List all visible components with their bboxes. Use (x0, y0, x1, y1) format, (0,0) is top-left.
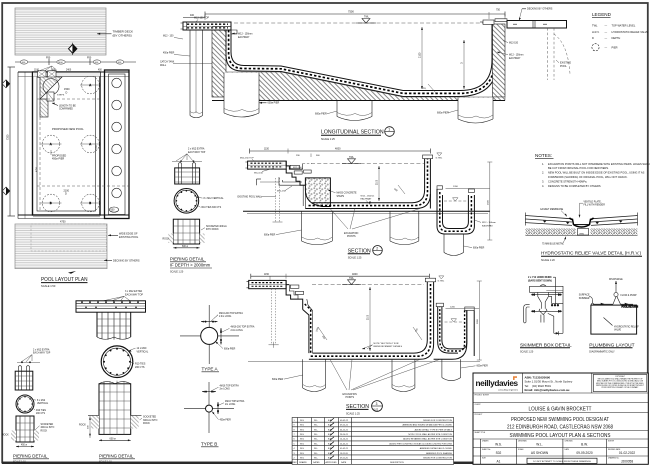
legend (592, 12, 649, 51)
title block copyright cell (593, 375, 647, 392)
plan left margin dimension line (7, 67, 15, 216)
svg-text:W.S.: W.S. (300, 439, 305, 441)
svg-text:3.: 3. (542, 179, 544, 183)
svg-text:B.W.: B.W. (328, 429, 333, 431)
svg-text:W.S.: W.S. (300, 425, 305, 427)
svg-text:4750: 4750 (36, 166, 38, 172)
section 3 ground line (248, 361, 480, 363)
svg-text:B.W.: B.W. (328, 434, 333, 436)
section 2 catch tank dims (446, 162, 496, 240)
svg-text:REINFORCEMENT DETAILS: REINFORCEMENT DETAILS (374, 345, 403, 348)
600 pier label (pier 3) (315, 111, 337, 116)
plan dashed setout lines (37, 77, 129, 211)
section 2 pier 1 (302, 211, 333, 245)
svg-text:8 x M12 VERTICAL: 8 x M12 VERTICAL (204, 197, 225, 200)
section 2 600 pier label (264, 230, 302, 236)
svg-text:TWL: TWL (349, 157, 355, 159)
svg-text:01-02-2022: 01-02-2022 (619, 451, 636, 455)
svg-text:NORTH: NORTH (608, 440, 615, 442)
svg-text:SCALE 1:20: SCALE 1:20 (541, 259, 555, 262)
svg-text:POINTS: POINTS (347, 236, 356, 238)
section 3 pier 1 (303, 359, 326, 391)
svg-text:SCALE 1:25: SCALE 1:25 (321, 138, 335, 141)
svg-text:1.: 1. (542, 162, 544, 166)
notes heading (535, 153, 554, 159)
svg-text:DISCHARGE: DISCHARGE (609, 278, 623, 281)
hrv slab left (525, 213, 572, 226)
svg-text:W12 - 150mm: W12 - 150mm (361, 195, 375, 197)
svg-text:7500: 7500 (348, 10, 354, 14)
section 3 pier labels (272, 366, 488, 381)
piering detail (depth>2000) cage elevation (175, 163, 200, 184)
bottom-left piering section circle (16, 395, 49, 415)
section 3 steps (286, 280, 320, 353)
blue metal label (542, 237, 566, 246)
svg-text:4750: 4750 (60, 221, 66, 224)
pier 4 (longitudinal) (458, 98, 493, 124)
svg-text:COPYRIGHT: COPYRIGHT (615, 376, 625, 378)
svg-text:SCALE: SCALE (518, 448, 524, 451)
svg-text:(BARS BENT DOWN): (BARS BENT DOWN) (528, 279, 552, 282)
section 3 TWL (312, 278, 424, 285)
svg-text:AMENDED AND ISSUED DETAILS AS: AMENDED AND ISSUED DETAILS AS PER CLOUDE… (402, 424, 452, 427)
falls arrow label on slope (287, 78, 436, 93)
svg-text:2m LONG: 2m LONG (225, 404, 236, 406)
svg-text:2m LONG: 2m LONG (220, 389, 231, 391)
title block frame (473, 373, 648, 464)
svg-text:W12 - 150mm: W12 - 150mm (482, 222, 496, 224)
svg-text:AS SHOWN: AS SHOWN (531, 451, 549, 455)
svg-text:SCALE 1:20: SCALE 1:20 (520, 350, 534, 353)
section 2 top dimension line (250, 148, 431, 158)
svg-text:DESIGNS TO BE COMPLETED BY OTH: DESIGNS TO BE COMPLETED BY OTHERS (548, 184, 601, 188)
svg-text:600: 600 (393, 189, 398, 193)
svg-text:POOL: POOL (560, 65, 567, 68)
600 pier label (pier 4) (437, 110, 458, 115)
do not scale box (527, 458, 597, 463)
svg-text:INTO ROCK: INTO ROCK (206, 229, 219, 231)
bottom-mid piering section circle (101, 346, 149, 378)
svg-text:FLOW & PUMP: FLOW & PUMP (621, 295, 638, 297)
piering detail (depth>2000) socket elevation (163, 219, 228, 244)
bottom-left piering socket elevation (2, 416, 54, 442)
plumbing layout skimmer (579, 294, 594, 306)
svg-text:600 ø: 600 ø (182, 246, 188, 248)
bottom-left piering detail label (17, 348, 51, 363)
plan steps hatched triangle (40, 77, 62, 117)
svg-text:SURFACE: SURFACE (579, 294, 590, 297)
bottom-left piering title (13, 453, 49, 463)
svg-text:TYPE B: TYPE B (201, 441, 217, 446)
section 3 note section4 label (362, 343, 403, 349)
bottom-mid piering neck elevation (97, 312, 131, 339)
svg-text:EACHWAY: EACHWAY (509, 57, 521, 60)
svg-text:EACHWAY: EACHWAY (238, 36, 250, 39)
existing pool label (556, 60, 571, 68)
svg-text:M12-150: M12-150 (293, 167, 302, 169)
svg-text:NOTE 2 POOL WALL AS PER SITE C: NOTE 2 POOL WALL AS PER SITE CONDITION (408, 433, 452, 436)
svg-text:AMENDED DETAILS AS CLOUDED: AMENDED DETAILS AS CLOUDED (420, 447, 453, 450)
svg-text:consulting engineers: consulting engineers (498, 389, 519, 392)
svg-text:W.L.: W.L. (314, 425, 318, 427)
title block sheet title row (510, 433, 611, 439)
hrv slab right (591, 213, 638, 226)
svg-text:TOP WATER LEVEL: TOP WATER LEVEL (612, 24, 636, 28)
svg-text:NEW POOL WILL BE BUILT ON INSI: NEW POOL WILL BE BUILT ON INSIDE EDGE OF… (548, 171, 645, 175)
svg-text:W.L.: W.L. (536, 442, 542, 446)
svg-text:750: 750 (496, 8, 501, 11)
svg-text:B: B (50, 202, 52, 205)
svg-text:M12-150: M12-150 (509, 43, 519, 45)
svg-text:7200: 7200 (7, 134, 10, 140)
svg-text:4000: 4000 (352, 273, 358, 276)
svg-text:R10 TIES: R10 TIES (36, 410, 46, 412)
piering detail (depth>2000) section circle (174, 189, 224, 214)
datum diamond left margin upper (2, 80, 10, 88)
title block project rows (507, 417, 613, 431)
svg-text:4000: 4000 (335, 148, 341, 151)
svg-text:2100: 2100 (368, 314, 370, 320)
small north arrow under band (68, 271, 76, 274)
svg-text:2400: 2400 (58, 62, 64, 64)
svg-text:W.L.: W.L. (314, 429, 318, 431)
svg-text:WALL: WALL (160, 64, 167, 67)
svg-text:ADDED PIER CONSTRUCTION AS CLO: ADDED PIER CONSTRUCTION AS CLOUDED & NOT… (389, 442, 452, 445)
svg-text:B.W.: B.W. (328, 458, 333, 460)
svg-text:PIERING DETAIL: PIERING DETAIL (170, 256, 205, 261)
svg-text:600: 600 (415, 328, 419, 333)
svg-text:PROJECT: PROJECT (475, 414, 483, 416)
svg-text:4M16-200 TOP EXTRA: 4M16-200 TOP EXTRA (219, 312, 243, 315)
pool shell (longitudinal) (212, 24, 497, 97)
svg-text:DRAWN: DRAWN (482, 439, 489, 442)
svg-text:D: D (66, 91, 68, 94)
svg-text:H.R.V.: H.R.V. (592, 30, 600, 34)
svg-text:2100: 2100 (377, 179, 379, 185)
600 pier label (pier 2) (259, 102, 279, 105)
svg-text:A: A (50, 143, 52, 146)
floor bed hatch (longitudinal) (212, 72, 505, 101)
svg-text:VENTILE PLATE,: VENTILE PLATE, (584, 200, 602, 203)
svg-text:EACH WAY TOP: EACH WAY TOP (188, 151, 206, 154)
svg-text:W12 - 150mm: W12 - 150mm (238, 34, 253, 36)
svg-text:PROJECT NORTH: PROJECT NORTH (475, 395, 490, 397)
catch tank pier (longitudinal far-left) (190, 30, 203, 118)
svg-text:W.S.: W.S. (300, 448, 305, 450)
existing pool dashed outline (548, 28, 571, 80)
svg-text:P50: P50 (46, 56, 51, 59)
type B detail (184, 382, 245, 433)
svg-text:EXISTING POOL: EXISTING POOL (119, 236, 139, 239)
svg-text:PIERING DETAIL: PIERING DETAIL (99, 453, 134, 458)
svg-text:360: 360 (316, 155, 320, 157)
svg-text:PROPOSED NEW SWIMMING POOL DES: PROPOSED NEW SWIMMING POOL DESIGN AT (511, 417, 609, 423)
section 2 excavation points (330, 209, 420, 239)
svg-text:LENGTH TO BE: LENGTH TO BE (59, 105, 76, 107)
internal depth dimension 1 (419, 27, 423, 89)
svg-text:SCALE 1:25: SCALE 1:25 (346, 412, 360, 415)
datum diamond left margin lower (2, 187, 10, 195)
piering detail (depth>2000) label (172, 148, 206, 163)
svg-text:600 ø: 600 ø (110, 437, 117, 440)
section 2 ground line and bed (243, 211, 490, 213)
svg-text:290: 290 (296, 155, 300, 157)
skimmer box label (528, 276, 556, 304)
svg-text:18-11-20: 18-11-20 (340, 453, 349, 455)
svg-text:4.: 4. (542, 184, 544, 188)
section 3 existing wall dashed (269, 289, 279, 348)
svg-text:EACH WAY TOP: EACH WAY TOP (33, 352, 51, 355)
svg-text:DESIGNED: DESIGNED (518, 440, 528, 442)
svg-text:CLIENT: CLIENT (475, 404, 481, 406)
svg-text:SOCKETED: SOCKETED (41, 424, 54, 426)
piering detail (depth>2000) title (170, 256, 212, 273)
svg-text:600ø PIER: 600ø PIER (272, 379, 284, 381)
svg-text:W.S.: W.S. (495, 442, 502, 446)
svg-text:EXCAVATION POINTS WILL NOT INT: EXCAVATION POINTS WILL NOT INTERFERE WIT… (548, 162, 650, 166)
svg-text:HYDROSTATIC RELIEF VALVE: HYDROSTATIC RELIEF VALVE (612, 30, 649, 34)
svg-text:450ø PIER: 450ø PIER (52, 158, 64, 161)
svg-text:W.L.: W.L. (314, 453, 318, 455)
svg-text:TWL: TWL (364, 17, 370, 19)
svg-text:DO NOT ATTEMPT TO SCALE FROM T: DO NOT ATTEMPT TO SCALE FROM THESE DRAWI… (533, 460, 591, 463)
svg-text:B.W.: B.W. (328, 443, 333, 445)
svg-text:2600: 2600 (477, 318, 479, 324)
m12-150 top label (left ledge) (194, 17, 209, 22)
left pool wall hatched (longitudinal) (212, 30, 226, 97)
svg-text:ISSUED FOR CONSTRUCTION: ISSUED FOR CONSTRUCTION (423, 420, 452, 422)
svg-text:B.W.: B.W. (581, 442, 588, 446)
svg-text:200 CTS: 200 CTS (135, 366, 145, 369)
section 2 pool shell (303, 153, 443, 209)
section 3 spa pier (442, 359, 461, 380)
section 2 mass concrete steps blob (305, 178, 357, 207)
svg-text:4M16 TOP EXTRA: 4M16 TOP EXTRA (225, 400, 245, 403)
svg-text:B.W.: B.W. (328, 425, 333, 427)
bottom-mid piering socket elevation (79, 381, 157, 438)
section 2 catch tank pier (444, 234, 485, 256)
pool plan wall rectangle (33, 72, 101, 215)
hrv gravel band (525, 228, 637, 235)
svg-text:B.W.: B.W. (328, 439, 333, 441)
svg-text:STEPS: STEPS (337, 196, 345, 198)
svg-text:2.0m LONG: 2.0m LONG (231, 330, 243, 332)
right rim rebar labels (497, 40, 524, 60)
svg-text:1150: 1150 (264, 149, 270, 151)
plumbing layout title (589, 342, 634, 353)
svg-text:S02: S02 (496, 451, 502, 455)
section 3 spa (434, 281, 482, 360)
timber deck label (97, 30, 133, 38)
svg-text:GASKET MEMBRANE: GASKET MEMBRANE (540, 208, 564, 211)
svg-text:TYPE A: TYPE A (202, 366, 219, 371)
svg-text:R10 TIES 300 CTS: R10 TIES 300 CTS (202, 207, 222, 209)
svg-text:CATCH TANK: CATCH TANK (160, 61, 175, 64)
svg-text:CONCRETE STRENGTH 40MPa.: CONCRETE STRENGTH 40MPa. (548, 179, 587, 183)
svg-text:LEGEND: LEGEND (592, 12, 612, 17)
section 2 internal dimension (361, 166, 406, 205)
svg-text:450ø PIER: 450ø PIER (220, 419, 232, 421)
svg-text:EACH WAY TOP: EACH WAY TOP (125, 293, 143, 296)
svg-text:03-02-22: 03-02-22 (340, 420, 349, 422)
svg-text:DATED: DATED (313, 461, 320, 464)
svg-text:M12-150: M12-150 (277, 191, 286, 193)
svg-text:01-02-21: 01-02-21 (340, 448, 349, 450)
svg-text:Tel: (02) 9922 5501: Tel: (02) 9922 5501 (525, 384, 552, 388)
svg-text:600ø PIER: 600ø PIER (473, 247, 485, 249)
svg-text:CONFIRMED: CONFIRMED (59, 109, 73, 111)
piering detail (depth>2000) dia dimension (173, 246, 199, 249)
svg-text:PROPOSED NEW POOL: PROPOSED NEW POOL (52, 127, 84, 131)
svg-text:—: — (605, 37, 608, 40)
svg-text:200 CTS: 200 CTS (36, 413, 46, 415)
svg-text:CHECKED: CHECKED (565, 440, 574, 442)
svg-text:1: 1 (388, 128, 390, 132)
svg-text:P50: P50 (87, 56, 92, 59)
svg-text:W.L.: W.L. (314, 443, 318, 445)
svg-text:SCALE 1:25: SCALE 1:25 (348, 257, 362, 260)
longitudinal section title (321, 127, 394, 141)
timber deck plank (right of longitudinal) (507, 21, 567, 29)
svg-text:EXISTING POOL WALL: EXISTING POOL WALL (238, 195, 263, 198)
bottom-mid piering dia dim (99, 437, 131, 441)
right wall hatched (longitudinal) (480, 19, 507, 97)
svg-text:DECKING BY OTHERS: DECKING BY OTHERS (113, 259, 140, 262)
type A detail (180, 305, 255, 364)
svg-text:SCALE 1:10: SCALE 1:10 (99, 460, 112, 463)
svg-text:3: 3 (376, 402, 378, 406)
decking by others label (top right) (519, 8, 553, 21)
svg-text:600ø PIER: 600ø PIER (264, 234, 276, 236)
svg-text:212 EDINBURGH ROAD, CASTLECRAG: 212 EDINBURGH ROAD, CASTLECRAG NSW 2068 (507, 425, 613, 431)
svg-text:ADDED RETAINING WALL AS PER SI: ADDED RETAINING WALL AS PER SITE CONDITI… (403, 438, 452, 441)
revision table (292, 418, 454, 465)
svg-text:DRAWING No.: DRAWING No. (608, 456, 620, 459)
svg-text:SCALE 1:10: SCALE 1:10 (13, 460, 26, 463)
svg-text:MASS CONCRETE: MASS CONCRETE (337, 192, 358, 195)
svg-text:600ø PIER: 600ø PIER (315, 113, 327, 116)
svg-text:MUST BE FOR THE COMMISSIONED,: MUST BE FOR THE COMMISSIONED, IT MUST NO… (596, 383, 644, 385)
left margin labels (160, 36, 212, 67)
longitudinal section top dimension line (183, 8, 505, 20)
svg-text:W.L.: W.L. (314, 420, 318, 422)
section 2 left ledge slab (240, 158, 286, 175)
svg-text:4M16-200 TOP EXTRA: 4M16-200 TOP EXTRA (231, 326, 255, 329)
bottom-mid piering title (99, 453, 135, 463)
plan text labels (51, 88, 84, 195)
svg-text:A: A (89, 84, 91, 87)
svg-text:W.S.: W.S. (300, 458, 305, 460)
svg-text:28-10-21: 28-10-21 (340, 434, 349, 436)
svg-text:—: — (605, 31, 608, 34)
svg-text:450: 450 (98, 70, 103, 72)
notes list (542, 162, 650, 188)
svg-text:1200: 1200 (453, 186, 459, 188)
title block client row (529, 406, 592, 412)
plumbing layout pipes (594, 296, 639, 308)
svg-text:W12 - 150mm: W12 - 150mm (509, 55, 524, 57)
svg-text:SKIMMER: SKIMMER (579, 298, 590, 300)
svg-text:VALVE: VALVE (614, 329, 622, 332)
plan top dimension row (15, 56, 136, 71)
pool plan bottom edge (18, 215, 129, 224)
svg-text:HYDROSTATIC RELIEF VALVE DETAI: HYDROSTATIC RELIEF VALVE DETAIL (H.R.V.) (541, 251, 641, 256)
hrv valve trapezoid (570, 218, 594, 236)
svg-text:SHEET No.: SHEET No. (482, 449, 491, 451)
svg-text:neillydavies: neillydavies (476, 379, 519, 388)
svg-text:09-12-21: 09-12-21 (340, 425, 349, 427)
svg-text:B.W.: B.W. (328, 453, 333, 455)
svg-text:NOTES:: NOTES: (535, 153, 552, 158)
datum diamond on deck (69, 43, 77, 55)
shell nib + gutter detail top-left (231, 30, 253, 39)
title block address (525, 375, 573, 392)
svg-text:450ø PIER: 450ø PIER (163, 53, 175, 55)
svg-text:REV: REV (293, 462, 298, 464)
neillydavies logo (476, 377, 519, 392)
svg-text:W.S.: W.S. (300, 429, 305, 431)
svg-text:1150: 1150 (264, 274, 270, 276)
svg-text:450 ø: 450 ø (21, 445, 27, 447)
svg-text:S.TWL: S.TWL (436, 158, 443, 160)
section 3 left ledge slab (247, 280, 287, 288)
svg-text:2 x M12 EXTRA: 2 x M12 EXTRA (188, 148, 205, 151)
catch tank plan column right (105, 70, 130, 219)
svg-text:14-10-21: 14-10-21 (340, 439, 349, 441)
svg-text:POINTS: POINTS (346, 397, 355, 399)
svg-text:2400: 2400 (66, 70, 72, 72)
plumbing layout discharge (609, 278, 637, 297)
svg-text:4M16 TOP EXTRA: 4M16 TOP EXTRA (220, 384, 240, 387)
pier 3 (longitudinal) (337, 101, 372, 121)
svg-text:DEPTH: DEPTH (612, 36, 621, 40)
svg-text:DESCRIPTION: DESCRIPTION (390, 462, 404, 464)
svg-text:2.: 2. (542, 171, 544, 175)
svg-text:D: D (65, 193, 67, 196)
catch tank plan pier circles (109, 78, 121, 212)
svg-text:600ø PIER: 600ø PIER (477, 366, 489, 368)
pool layout plan : top deck hatch band (15, 8, 106, 55)
internal depth dimension 2 (461, 40, 465, 89)
svg-text:DATE: DATE (341, 461, 347, 464)
svg-text:IF DEPTH > 2000mm: IF DEPTH > 2000mm (170, 263, 211, 268)
svg-text:ISSUED FOR CONSTRUCTION: ISSUED FOR CONSTRUCTION (423, 458, 452, 460)
section 3 internal dims (270, 276, 371, 351)
section 3 top dimension (251, 273, 430, 279)
svg-text:EACHWAY: EACHWAY (361, 198, 372, 201)
section 3 main shell (309, 276, 445, 359)
section 2 TWL (311, 157, 424, 164)
pool plan coping outer lines (18, 72, 129, 219)
plumbing layout pool box (591, 305, 639, 334)
bottom border thick line (2, 462, 648, 464)
svg-text:ROCK: ROCK (143, 422, 150, 425)
wide edge existing pool label (108, 233, 139, 239)
svg-text:FILL WITH RENDER: FILL WITH RENDER (584, 205, 606, 207)
svg-text:HYDROSTATIC RELIEF: HYDROSTATIC RELIEF (614, 325, 639, 328)
svg-text:J200058: J200058 (621, 459, 633, 463)
svg-text:SWIMMING POOL LAYOUT PLAN & SE: SWIMMING POOL LAYOUT PLAN & SECTIONS (510, 433, 611, 439)
section 2 title (348, 246, 383, 260)
svg-text:09-09-2020: 09-09-2020 (576, 451, 593, 455)
svg-text:VERTICAL: VERTICAL (37, 402, 49, 405)
svg-text:DIAGRAMMATIC ONLY: DIAGRAMMATIC ONLY (589, 350, 615, 353)
svg-text:2 x M12 EXTRA: 2 x M12 EXTRA (33, 348, 50, 351)
svg-text:Email: info@neillydavies.com.a: Email: info@neillydavies.com.au (525, 388, 570, 392)
section 3 pier 2 (392, 359, 415, 391)
section 2 upper steps (277, 161, 312, 193)
svg-text:STEPS: STEPS (57, 94, 65, 96)
